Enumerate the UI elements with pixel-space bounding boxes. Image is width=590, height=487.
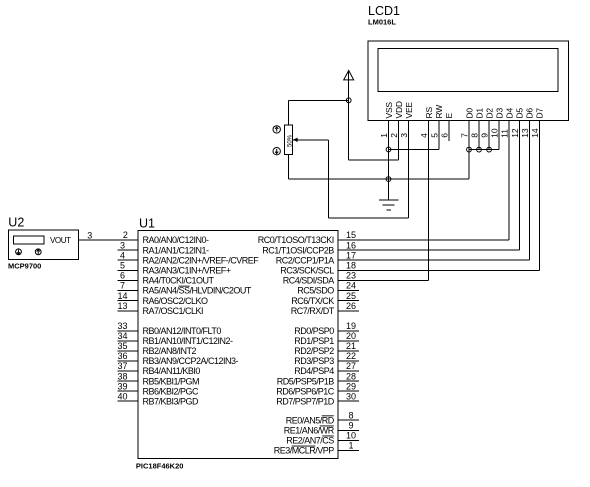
svg-text:23: 23 xyxy=(346,271,356,281)
svg-text:RD0/PSP0: RD0/PSP0 xyxy=(294,326,334,336)
svg-text:9: 9 xyxy=(348,421,353,431)
svg-text:35: 35 xyxy=(117,341,127,351)
svg-text:25: 25 xyxy=(346,291,356,301)
svg-text:10: 10 xyxy=(346,431,356,441)
svg-text:RC2/CCP1/P1A: RC2/CCP1/P1A xyxy=(276,255,335,265)
svg-text:RC6/TX/CK: RC6/TX/CK xyxy=(291,296,334,306)
svg-text:38: 38 xyxy=(117,371,127,381)
svg-text:RD6/PSP6/P1C: RD6/PSP6/P1C xyxy=(276,386,335,396)
svg-text:19: 19 xyxy=(346,321,356,331)
svg-text:5: 5 xyxy=(429,133,439,138)
svg-text:3: 3 xyxy=(120,240,125,250)
svg-text:50%: 50% xyxy=(287,134,293,147)
svg-text:RA0/AN0/C12IN0-: RA0/AN0/C12IN0- xyxy=(143,235,210,245)
svg-text:22: 22 xyxy=(346,351,356,361)
svg-text:RA3/AN3/C1IN+/VREF+: RA3/AN3/C1IN+/VREF+ xyxy=(143,266,231,276)
svg-text:RC7/RX/DT: RC7/RX/DT xyxy=(291,306,335,316)
svg-text:VEE: VEE xyxy=(404,102,414,119)
svg-text:LM016L: LM016L xyxy=(368,18,396,27)
svg-text:RB2/AN8/INT2: RB2/AN8/INT2 xyxy=(143,346,197,356)
svg-text:RB0/AN12/INT0/FLT0: RB0/AN12/INT0/FLT0 xyxy=(143,326,222,336)
svg-text:40: 40 xyxy=(117,391,127,401)
svg-text:6: 6 xyxy=(120,271,125,281)
svg-text:RA4/T0CKI/C1OUT: RA4/T0CKI/C1OUT xyxy=(143,276,215,286)
svg-text:4: 4 xyxy=(419,133,429,138)
svg-text:1: 1 xyxy=(348,441,353,451)
svg-text:RE0/AN5/RD: RE0/AN5/RD xyxy=(286,415,335,425)
svg-text:RA6/OSC2/CLKO: RA6/OSC2/CLKO xyxy=(143,296,209,306)
svg-text:30: 30 xyxy=(346,391,356,401)
svg-text:U1: U1 xyxy=(139,216,155,230)
svg-text:RE3/MCLR/VPP: RE3/MCLR/VPP xyxy=(274,446,335,456)
svg-text:29: 29 xyxy=(346,381,356,391)
svg-text:3: 3 xyxy=(87,230,92,240)
svg-text:RC0/T1OSO/T13CKI: RC0/T1OSO/T13CKI xyxy=(258,235,334,245)
svg-text:24: 24 xyxy=(346,281,356,291)
svg-text:D5: D5 xyxy=(515,108,525,119)
svg-text:6: 6 xyxy=(439,133,449,138)
svg-text:RD4/PSP4: RD4/PSP4 xyxy=(294,366,334,376)
svg-text:27: 27 xyxy=(346,361,356,371)
svg-text:14: 14 xyxy=(117,291,127,301)
svg-text:RC3/SCK/SCL: RC3/SCK/SCL xyxy=(280,266,334,276)
svg-text:12: 12 xyxy=(510,128,520,138)
svg-text:D1: D1 xyxy=(474,108,484,119)
svg-text:VOUT: VOUT xyxy=(50,236,71,245)
svg-text:PIC18F46K20: PIC18F46K20 xyxy=(136,461,184,470)
svg-text:RB3/AN9/CCP2A/C12IN3-: RB3/AN9/CCP2A/C12IN3- xyxy=(143,356,239,366)
svg-text:3: 3 xyxy=(399,133,409,138)
svg-text:RB4/AN11/KBI0: RB4/AN11/KBI0 xyxy=(143,366,201,376)
svg-text:D6: D6 xyxy=(525,108,535,119)
svg-text:34: 34 xyxy=(117,331,127,341)
svg-text:RB6/KBI2/PGC: RB6/KBI2/PGC xyxy=(143,386,200,396)
svg-text:36: 36 xyxy=(117,351,127,361)
svg-text:7: 7 xyxy=(120,281,125,291)
svg-text:RA2/AN2/C2IN+/VREF-/CVREF: RA2/AN2/C2IN+/VREF-/CVREF xyxy=(143,255,260,265)
svg-text:RD1/PSP1: RD1/PSP1 xyxy=(294,336,334,346)
svg-text:LCD1: LCD1 xyxy=(368,4,400,18)
svg-text:D0: D0 xyxy=(464,108,474,119)
svg-text:RB1/AN10/INT1/C12IN2-: RB1/AN10/INT1/C12IN2- xyxy=(143,336,234,346)
svg-text:RC4/SDI/SDA: RC4/SDI/SDA xyxy=(283,276,335,286)
svg-text:VDD: VDD xyxy=(394,101,404,118)
svg-text:26: 26 xyxy=(346,301,356,311)
svg-text:8: 8 xyxy=(348,410,353,420)
svg-text:RA5/AN4/SS/HLVDIN/C2OUT: RA5/AN4/SS/HLVDIN/C2OUT xyxy=(143,286,252,296)
svg-text:MCP9700: MCP9700 xyxy=(8,262,41,271)
svg-text:11: 11 xyxy=(500,129,510,138)
svg-text:RS: RS xyxy=(424,107,434,119)
svg-text:7: 7 xyxy=(460,133,470,138)
svg-text:4: 4 xyxy=(120,250,125,260)
svg-text:RD7/PSP7/P1D: RD7/PSP7/P1D xyxy=(276,396,335,406)
svg-text:RB7/KBI3/PGD: RB7/KBI3/PGD xyxy=(143,396,200,406)
svg-text:RE1/AN6/WR: RE1/AN6/WR xyxy=(284,426,335,436)
svg-text:D7: D7 xyxy=(535,108,545,119)
svg-text:RA1/AN1/C12IN1-: RA1/AN1/C12IN1- xyxy=(143,245,210,255)
svg-text:RA7/OSC1/CLKI: RA7/OSC1/CLKI xyxy=(143,306,204,316)
svg-text:RB5/KBI1/PGM: RB5/KBI1/PGM xyxy=(143,376,200,386)
svg-text:10: 10 xyxy=(490,128,500,138)
svg-text:17: 17 xyxy=(346,250,356,260)
svg-text:RC5/SDO: RC5/SDO xyxy=(297,286,334,296)
svg-text:RD5/PSP5/P1B: RD5/PSP5/P1B xyxy=(277,376,335,386)
svg-text:37: 37 xyxy=(117,361,127,371)
svg-text:1: 1 xyxy=(379,133,389,138)
svg-text:13: 13 xyxy=(117,301,127,311)
svg-text:16: 16 xyxy=(346,240,356,250)
svg-text:RW: RW xyxy=(434,105,444,119)
svg-text:E: E xyxy=(444,113,454,119)
svg-text:VSS: VSS xyxy=(384,102,394,119)
svg-text:28: 28 xyxy=(346,371,356,381)
svg-text:D2: D2 xyxy=(484,108,494,119)
svg-text:20: 20 xyxy=(346,331,356,341)
svg-text:33: 33 xyxy=(117,321,127,331)
svg-text:D4: D4 xyxy=(505,108,515,119)
svg-text:2: 2 xyxy=(389,133,399,138)
svg-text:RD2/PSP2: RD2/PSP2 xyxy=(294,346,334,356)
svg-text:13: 13 xyxy=(520,128,530,138)
svg-text:RD3/PSP3: RD3/PSP3 xyxy=(294,356,334,366)
svg-text:2: 2 xyxy=(123,230,128,240)
svg-text:15: 15 xyxy=(346,230,356,240)
svg-text:5: 5 xyxy=(120,261,125,271)
svg-text:U2: U2 xyxy=(8,215,24,229)
svg-text:D3: D3 xyxy=(495,108,505,119)
svg-text:39: 39 xyxy=(117,381,127,391)
svg-text:RC1/T1OSI/CCP2B: RC1/T1OSI/CCP2B xyxy=(262,245,334,255)
svg-text:21: 21 xyxy=(346,341,356,351)
svg-text:14: 14 xyxy=(530,128,540,138)
svg-text:18: 18 xyxy=(346,261,356,271)
svg-text:RE2/AN7/CS: RE2/AN7/CS xyxy=(286,436,334,446)
svg-text:8: 8 xyxy=(470,133,480,138)
svg-text:9: 9 xyxy=(480,133,490,138)
